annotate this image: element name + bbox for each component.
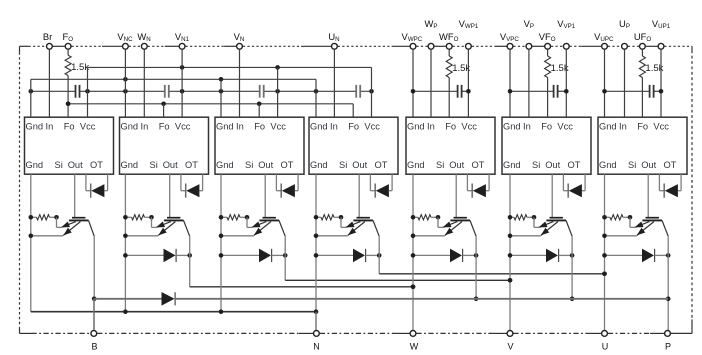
svg-text:In: In <box>427 122 435 132</box>
svg-text:Gnd: Gnd <box>599 160 617 170</box>
svg-text:Vcc: Vcc <box>270 122 286 132</box>
svg-text:Gnd: Gnd <box>503 122 521 132</box>
svg-text:Fo: Fo <box>64 122 75 132</box>
svg-text:OT: OT <box>375 160 388 170</box>
svg-text:Gnd: Gnd <box>407 122 425 132</box>
svg-text:Si: Si <box>339 160 347 170</box>
svg-text:Gnd: Gnd <box>26 160 44 170</box>
svg-text:Gnd: Gnd <box>310 160 328 170</box>
svg-text:Out: Out <box>352 160 367 170</box>
svg-text:Out: Out <box>449 160 464 170</box>
svg-text:OT: OT <box>90 160 103 170</box>
svg-text:Vcc: Vcc <box>80 122 96 132</box>
svg-text:Si: Si <box>628 160 636 170</box>
svg-text:OT: OT <box>472 160 485 170</box>
svg-text:Gnd: Gnd <box>26 122 44 132</box>
svg-text:Gnd: Gnd <box>216 122 234 132</box>
svg-text:U: U <box>602 342 609 352</box>
svg-text:Out: Out <box>641 160 656 170</box>
svg-text:Fo: Fo <box>541 122 552 132</box>
svg-text:Si: Si <box>245 160 253 170</box>
svg-text:1.5k: 1.5k <box>71 62 89 73</box>
svg-text:OT: OT <box>568 160 581 170</box>
svg-text:Fo: Fo <box>254 122 265 132</box>
svg-text:In: In <box>619 122 627 132</box>
svg-text:Fo: Fo <box>637 122 648 132</box>
svg-text:Si: Si <box>55 160 63 170</box>
svg-text:In: In <box>141 122 149 132</box>
svg-text:In: In <box>236 122 244 132</box>
svg-text:Gnd: Gnd <box>599 122 617 132</box>
svg-text:N: N <box>313 342 320 352</box>
svg-text:Fo: Fo <box>159 122 170 132</box>
svg-text:Gnd: Gnd <box>121 122 139 132</box>
svg-text:OT: OT <box>664 160 677 170</box>
svg-text:Gnd: Gnd <box>121 160 139 170</box>
svg-text:Gnd: Gnd <box>503 160 521 170</box>
svg-text:Out: Out <box>545 160 560 170</box>
svg-text:Out: Out <box>258 160 273 170</box>
svg-text:B: B <box>91 342 97 352</box>
svg-text:Fo: Fo <box>348 122 359 132</box>
svg-text:Gnd: Gnd <box>216 160 234 170</box>
svg-text:In: In <box>523 122 531 132</box>
svg-text:Br: Br <box>43 31 52 42</box>
svg-text:Gnd: Gnd <box>310 122 328 132</box>
svg-text:P: P <box>665 342 671 352</box>
svg-text:Gnd: Gnd <box>407 160 425 170</box>
svg-text:Si: Si <box>150 160 158 170</box>
svg-text:OT: OT <box>185 160 198 170</box>
svg-text:Out: Out <box>68 160 83 170</box>
svg-text:Si: Si <box>436 160 444 170</box>
svg-text:Vcc: Vcc <box>557 122 573 132</box>
svg-text:In: In <box>46 122 54 132</box>
svg-text:1.5k: 1.5k <box>452 63 470 74</box>
svg-text:Si: Si <box>532 160 540 170</box>
svg-text:Fo: Fo <box>445 122 456 132</box>
svg-text:W: W <box>410 342 419 352</box>
svg-text:In: In <box>330 122 338 132</box>
svg-text:Vcc: Vcc <box>653 122 669 132</box>
svg-text:OT: OT <box>281 160 294 170</box>
svg-text:Vcc: Vcc <box>175 122 191 132</box>
svg-text:Vcc: Vcc <box>461 122 477 132</box>
svg-text:Vcc: Vcc <box>364 122 380 132</box>
svg-text:V: V <box>507 342 513 352</box>
svg-text:Out: Out <box>163 160 178 170</box>
